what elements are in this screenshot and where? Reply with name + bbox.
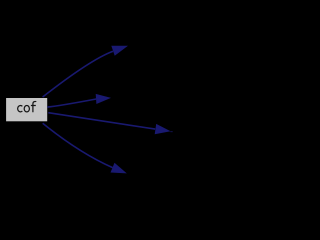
wire edge3 line bbox=[48, 113, 155, 129]
arrowhead edge4 bbox=[111, 163, 127, 174]
arrowhead edge3 bbox=[155, 124, 171, 134]
wire edge1 curve bbox=[43, 51, 113, 97]
wire edge2 line bbox=[47, 99, 96, 107]
arrowhead edge1 bbox=[111, 46, 128, 56]
node cof box bbox=[6, 98, 47, 121]
wire edge4 curve bbox=[43, 123, 113, 167]
arrowhead edge2 bbox=[96, 94, 111, 104]
node cof label bbox=[18, 101, 36, 112]
